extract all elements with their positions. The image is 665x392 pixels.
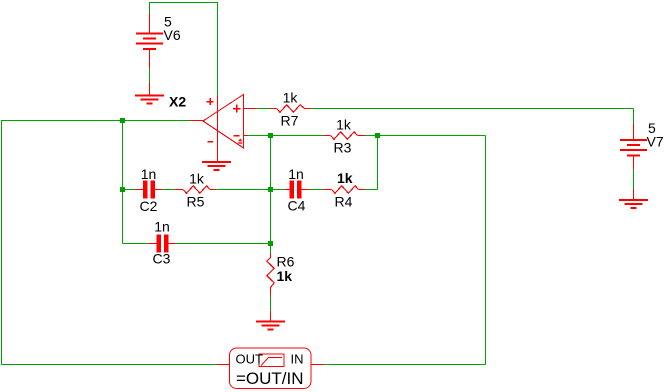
svg-text:V6: V6 <box>164 27 181 43</box>
svg-text:IN: IN <box>291 352 304 367</box>
svg-text:R3: R3 <box>334 140 352 156</box>
svg-text:1n: 1n <box>141 166 157 182</box>
svg-text:R7: R7 <box>281 113 299 129</box>
svg-text:OUT: OUT <box>236 352 264 367</box>
svg-text:=OUT/IN: =OUT/IN <box>236 369 304 388</box>
svg-text:1n: 1n <box>154 219 170 235</box>
svg-text:R5: R5 <box>187 194 205 210</box>
svg-text:R4: R4 <box>335 194 353 210</box>
svg-text:C3: C3 <box>153 251 171 267</box>
svg-text:1k: 1k <box>189 171 205 187</box>
svg-text:C2: C2 <box>140 198 158 214</box>
svg-text:1n: 1n <box>288 166 304 182</box>
svg-text:V7: V7 <box>647 134 664 150</box>
svg-text:1k: 1k <box>337 170 353 186</box>
svg-text:1k: 1k <box>336 117 352 133</box>
svg-text:1k: 1k <box>283 90 299 106</box>
svg-text:1k: 1k <box>277 268 293 284</box>
svg-text:C4: C4 <box>288 198 306 214</box>
svg-text:X2: X2 <box>169 94 186 110</box>
